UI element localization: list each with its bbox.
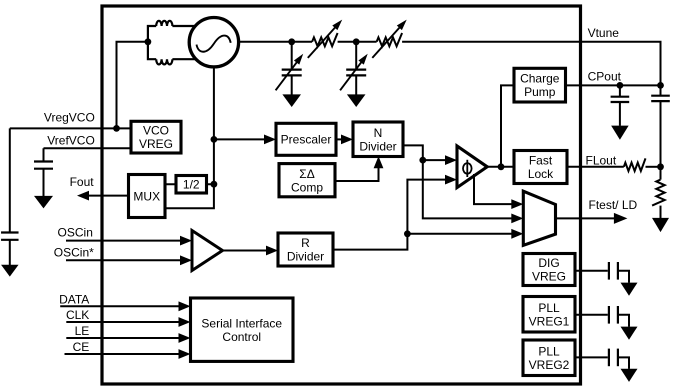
svg-text:VREG1: VREG1 bbox=[529, 314, 570, 328]
svg-text:PLL: PLL bbox=[538, 301, 560, 315]
svg-text:VREG: VREG bbox=[139, 137, 173, 151]
svg-text:VREG: VREG bbox=[532, 270, 566, 284]
svg-text:CLK: CLK bbox=[66, 308, 89, 322]
svg-text:Fast: Fast bbox=[529, 154, 553, 168]
svg-text:Control: Control bbox=[222, 330, 261, 344]
svg-text:Comp: Comp bbox=[291, 180, 323, 194]
svg-text:Charge: Charge bbox=[520, 72, 560, 86]
svg-text:Divider: Divider bbox=[359, 139, 396, 153]
svg-text:N: N bbox=[374, 126, 383, 140]
svg-text:VREG2: VREG2 bbox=[529, 358, 570, 372]
svg-text:VCO: VCO bbox=[143, 124, 169, 138]
svg-text:1/2: 1/2 bbox=[183, 178, 200, 192]
svg-text:FLout: FLout bbox=[586, 153, 617, 167]
svg-text:R: R bbox=[301, 236, 310, 250]
svg-text:Fout: Fout bbox=[70, 175, 95, 189]
svg-text:OSCin: OSCin bbox=[58, 225, 93, 239]
svg-text:DATA: DATA bbox=[59, 292, 89, 306]
svg-text:Vtune: Vtune bbox=[588, 26, 620, 40]
svg-text:Divider: Divider bbox=[287, 250, 324, 264]
svg-text:Serial Interface: Serial Interface bbox=[201, 316, 282, 330]
svg-text:Ftest/ LD: Ftest/ LD bbox=[589, 198, 638, 212]
svg-text:VregVCO: VregVCO bbox=[44, 111, 95, 125]
svg-text:VrefVCO: VrefVCO bbox=[47, 134, 95, 148]
svg-text:Prescaler: Prescaler bbox=[281, 133, 332, 147]
svg-text:PLL: PLL bbox=[538, 344, 560, 358]
svg-text:LE: LE bbox=[75, 324, 90, 338]
svg-text:CE: CE bbox=[73, 340, 90, 354]
svg-text:Lock: Lock bbox=[528, 167, 554, 181]
svg-text:ΣΔ: ΣΔ bbox=[299, 167, 314, 181]
svg-text:Pump: Pump bbox=[524, 85, 556, 99]
svg-text:DIG: DIG bbox=[538, 256, 559, 270]
svg-text:OSCin*: OSCin* bbox=[54, 246, 94, 260]
svg-text:CPout: CPout bbox=[588, 69, 622, 83]
svg-text:MUX: MUX bbox=[133, 189, 160, 203]
